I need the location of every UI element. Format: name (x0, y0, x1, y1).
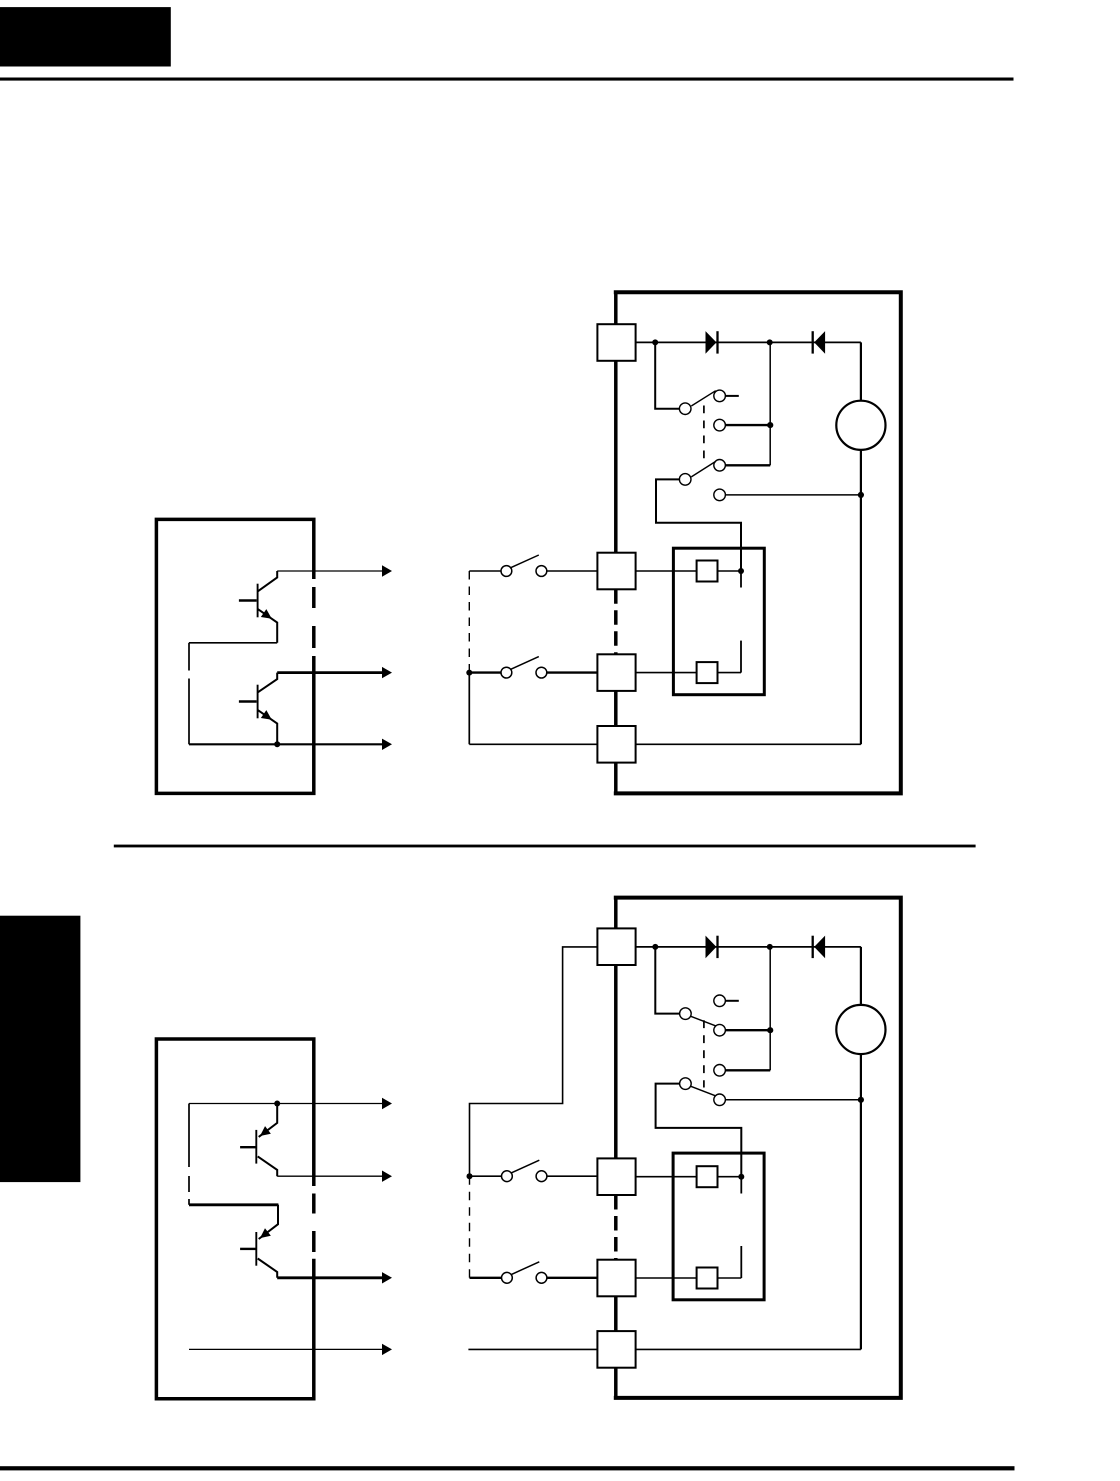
output line 12 bold (diagram 1) (277, 671, 382, 674)
output line 24 (diagram 2) (189, 1348, 383, 1350)
middle separator rule (114, 845, 976, 848)
inverter enclosure (diagram 1) (614, 292, 901, 793)
controller box right edge dashed segment (diagram 2) (312, 1194, 316, 1253)
selector switch S1 pole (diagram 1) (679, 391, 715, 415)
transistor Q2 (diagram 1) (257, 685, 259, 719)
output line 21 (diagram 2) (189, 1103, 383, 1105)
arrow 13 (382, 739, 392, 750)
wire input 22 left bold (diagram 2) (470, 1277, 502, 1279)
wire collector common down (diagram 2) (188, 1104, 190, 1152)
selector contact S2-a (diagram 1) (714, 460, 770, 472)
switch SW11 (diagram 1) (501, 555, 547, 576)
wire common line to terminal (diagram 2) (468, 1348, 597, 1350)
junction dot relay contact 1 (diagram 1) (738, 568, 744, 574)
wire terminal3 to relay coil (diagram 1) (636, 672, 697, 674)
relay coil RY3 (diagram 2) (697, 1166, 718, 1187)
top horizontal rule (0, 78, 1014, 81)
wire input 12 right bold (diagram 1) (547, 671, 598, 673)
dashed mechanical link S1-S2 (diagram 1) (703, 406, 705, 463)
relay box (diagram 1) (673, 548, 764, 695)
junction dot input 21 (diagram 2) (467, 1173, 473, 1179)
output line COM (diagram 1) (189, 743, 383, 745)
wire common line to terminal (diagram 1) (469, 743, 597, 745)
selector contact S1-a with stub (diagram 1) (714, 390, 739, 402)
inverter enclosure (diagram 2) (614, 898, 901, 1398)
wire input 11 right (diagram 1) (547, 570, 598, 572)
wire terminal3 to relay coil (diagram 2) (636, 1277, 697, 1279)
junction dot relay contact 3 (diagram 2) (738, 1174, 744, 1180)
dashed link SW11-SW12 (diagram 1) (468, 571, 470, 673)
junction dot S3-b (diagram 2) (767, 1027, 773, 1033)
junction node a1 (diagram 1) (652, 339, 658, 345)
dashed mechanical link S3-S4 (diagram 2) (703, 1020, 705, 1087)
switch SW12 (diagram 1) (501, 657, 547, 678)
wire terminal2 to relay coil (diagram 2) (636, 1176, 697, 1178)
junction dot emitter common (diagram 1) (274, 741, 280, 747)
transistor Q1 (diagram 1) (257, 584, 259, 618)
output line 22 (diagram 2) (277, 1175, 382, 1177)
relay coil RY2 (diagram 1) (697, 662, 718, 683)
terminal 1 (diagram 2) (597, 928, 635, 965)
junction dot collector common (diagram 2) (274, 1101, 280, 1107)
wire input 21 right (diagram 2) (547, 1175, 598, 1177)
terminal bus segment a (diagram 1) (614, 292, 618, 324)
black header tab (0, 7, 171, 66)
transistor Q3 (diagram 2) (255, 1130, 257, 1164)
selector switch S2 pole (diagram 1) (679, 461, 715, 485)
switch SW21 (diagram 2) (502, 1160, 547, 1181)
controller box (diagram 2) (156, 1039, 313, 1399)
bottom horizontal rule (0, 1466, 1015, 1470)
transistor Q4 (diagram 2) (255, 1232, 257, 1266)
dashed wire common (diagram 2) (188, 1151, 190, 1205)
wire common down to COM line (diagram 1) (188, 696, 190, 744)
selector contact S4-a (diagram 2) (714, 1065, 770, 1077)
relay box (diagram 2) (673, 1153, 764, 1300)
wire input 21 left (diagram 2) (470, 1175, 502, 1177)
junction dot motor line (diagram 1) (858, 492, 864, 498)
selector contact S2-b (diagram 1) (714, 489, 861, 501)
diode D12 (diagram 1) (812, 331, 814, 353)
wire node b2 down (diagram 2) (769, 947, 771, 1070)
dashed wire common (diagram 1) (188, 653, 190, 696)
arrow 22 (382, 1171, 392, 1182)
terminal bus segment c (diagram 2) (614, 1296, 618, 1331)
terminal 4 (diagram 2) (597, 1331, 635, 1368)
wire input 12 to common (diagram 1) (468, 673, 470, 745)
relay coil RY4 (diagram 2) (697, 1268, 718, 1289)
terminal bus segment d (diagram 1) (614, 763, 618, 794)
selector contact S3-a with stub (diagram 2) (714, 995, 739, 1007)
controller box right edge dashed segment (diagram 1) (312, 587, 316, 648)
wire P24 rail (diagram 2) (636, 946, 861, 948)
wire terminal1 loop (diagram 2) (470, 947, 598, 1176)
selector contact S4-b (diagram 2) (714, 1094, 861, 1106)
motor M (diagram 1) (836, 401, 885, 450)
relay contact stub 2 (diagram 1) (740, 641, 742, 673)
relay contact stub 3 (diagram 2) (740, 1177, 742, 1194)
bold wire common to Q4 (diagram 2) (189, 1203, 278, 1206)
arrow 12 (382, 667, 392, 678)
relay contact stub 1 (diagram 1) (740, 571, 742, 588)
junction node b1 (diagram 1) (767, 339, 773, 345)
wire terminal2 to relay coil (diagram 1) (636, 570, 697, 572)
junction dot input 12 (diagram 1) (466, 670, 472, 676)
switch SW22 (diagram 2) (502, 1262, 547, 1283)
relay coil RY1 (diagram 1) (697, 561, 718, 582)
wire S2 pole to relay (diagram 1) (656, 479, 741, 571)
black side tab (0, 916, 80, 1182)
junction dot S1-b (diagram 1) (767, 422, 773, 428)
terminal bus segment b (diagram 1) (614, 361, 618, 553)
wire rail corner down to motor (diagram 2) (860, 947, 862, 1350)
terminal 4 (diagram 1) (597, 726, 635, 763)
terminal 1 (diagram 1) (597, 324, 635, 361)
terminal 2 (diagram 1) (597, 553, 635, 590)
wire input 11 left (diagram 1) (469, 570, 501, 572)
selector contact S1-b (diagram 1) (714, 419, 770, 431)
selector switch S4 pole (diagram 2) (680, 1078, 717, 1097)
wire relay coil RY1 to contact (diagram 1) (718, 570, 742, 572)
wire relay coil RY4 to contact (diagram 2) (718, 1277, 742, 1279)
wire input 22 right bold (diagram 2) (547, 1277, 598, 1279)
arrow 11 (382, 565, 392, 576)
arrow 21 (382, 1098, 392, 1109)
arrow 23 (382, 1272, 392, 1283)
junction dot motor line (diagram 2) (858, 1097, 864, 1103)
terminal bus segment b (diagram 2) (614, 965, 618, 1158)
junction node b2 (diagram 2) (767, 944, 773, 950)
output line 11 (diagram 1) (277, 570, 382, 572)
terminal 3 (diagram 2) (597, 1260, 635, 1297)
wire node a2 down to selector (diagram 2) (655, 947, 680, 1014)
selector switch S3 pole (diagram 2) (680, 1008, 717, 1027)
wire terminal4 to motor line (diagram 1) (636, 743, 861, 745)
wire relay coil RY2 to contact (diagram 1) (718, 672, 742, 674)
terminal 3 (diagram 1) (597, 654, 635, 691)
dashed link SW21-SW22 (diagram 2) (469, 1176, 471, 1278)
relay contact stub 4 (diagram 2) (740, 1246, 742, 1278)
wire node a1 down to selector (diagram 1) (655, 342, 680, 408)
diode D21 (diagram 2) (706, 936, 717, 959)
terminal bus segment d (diagram 2) (614, 1368, 618, 1398)
arrow 24 (382, 1344, 392, 1355)
motor M (diagram 2) (836, 1005, 885, 1054)
diode D22 (diagram 2) (812, 936, 814, 958)
wire Q1 emitter to common (diagram 1) (189, 643, 277, 653)
selector contact S3-b (diagram 2) (714, 1024, 770, 1036)
terminal bus dashed segment (diagram 2) (614, 1195, 618, 1260)
terminal bus dashed segment (diagram 1) (614, 589, 618, 654)
wire P24 rail (diagram 1) (636, 341, 861, 343)
diode D11 (diagram 1) (706, 331, 717, 354)
terminal bus segment a (diagram 2) (614, 898, 618, 929)
terminal 2 (diagram 2) (597, 1158, 635, 1195)
wire rail corner down to motor (diagram 1) (860, 342, 862, 744)
wire input 12 left bold (diagram 1) (469, 671, 501, 673)
wire terminal4 to motor line (diagram 2) (636, 1348, 861, 1350)
wire relay coil RY3 to contact (diagram 2) (718, 1176, 742, 1178)
output line 23 bold (diagram 2) (277, 1276, 382, 1279)
wire S4 pole to relay (diagram 2) (656, 1084, 742, 1177)
terminal bus segment c (diagram 1) (614, 691, 618, 726)
controller box (diagram 1) (156, 519, 313, 793)
wire node b1 down (diagram 1) (769, 342, 771, 465)
junction node a2 (diagram 2) (652, 944, 658, 950)
